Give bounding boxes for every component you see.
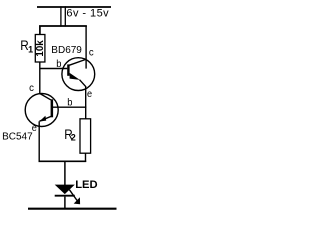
supply box top line (37, 6, 111, 8)
svg-text:2: 2 (71, 133, 76, 143)
LED cathode wire (64, 197, 66, 209)
BC547 emitter wire down (38, 121, 40, 161)
LED anode wire (64, 161, 66, 185)
LED cathode bar (55, 195, 75, 197)
svg-text:e: e (87, 88, 92, 100)
BC547 emitter diagonal (40, 116, 53, 121)
wire R1 bottom to BC547 collector (39, 62, 41, 94)
BD679 collector diagonal (69, 59, 85, 65)
BC547 base bar (51, 99, 54, 117)
LED emission arrow shaft (69, 190, 79, 204)
resistor R1 box (35, 35, 45, 63)
svg-text:b: b (56, 58, 61, 70)
svg-text:c: c (89, 46, 94, 58)
svg-text:6v - 15v: 6v - 15v (66, 8, 109, 20)
junction wire emitter/LED/R2 (39, 160, 87, 162)
supply box inner edge (64, 6, 66, 26)
0v rail (28, 208, 117, 210)
BD679 emitter wire down to R2 (85, 86, 87, 119)
BC547 base wire (53, 106, 86, 108)
svg-text:b: b (67, 97, 72, 109)
wire R2 bottom (85, 153, 87, 162)
resistor R2 box (80, 119, 91, 153)
BC547 collector diagonal (40, 94, 51, 100)
LED emission arrowhead (74, 197, 80, 204)
wire branch to BD679 base (40, 68, 68, 70)
svg-text:1: 1 (28, 44, 33, 54)
BD679 emitter arrowhead (70, 73, 80, 80)
svg-text:BC547: BC547 (2, 132, 33, 143)
LED triangle (55, 185, 75, 195)
svg-text:c: c (29, 82, 34, 94)
positive rail (40, 26, 87, 35)
svg-text:LED: LED (75, 179, 97, 191)
svg-text:10k: 10k (35, 40, 46, 57)
BC547 emitter arrowhead (39, 116, 46, 122)
transistor BC547 circle (25, 94, 58, 127)
svg-text:e: e (32, 122, 37, 134)
supply box left edge (60, 6, 62, 26)
transistor BD679 circle (62, 58, 95, 91)
svg-text:BD679: BD679 (51, 45, 82, 56)
BD679 emitter diagonal (80, 80, 86, 87)
BD679 collector wire (85, 26, 87, 69)
BD679 base bar (67, 64, 69, 75)
